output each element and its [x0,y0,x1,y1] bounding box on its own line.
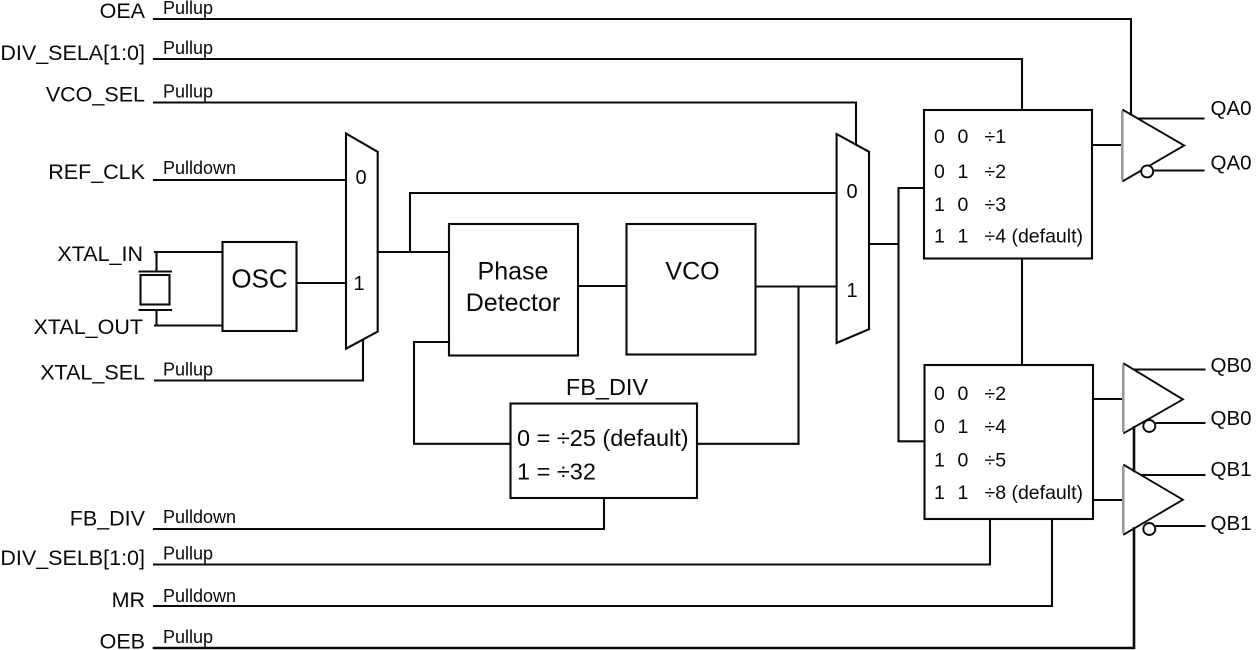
svg-text:Pullup: Pullup [163,82,213,102]
svg-text:1 0: 1 0 [934,450,972,472]
wire MR net [154,519,1052,606]
wire OEB net [154,427,1134,648]
svg-text:MR: MR [112,588,145,612]
svg-text:XTAL_SEL: XTAL_SEL [40,361,145,385]
svg-text:Pullup: Pullup [163,38,213,58]
wire PD to VCO [578,285,627,287]
svg-text:÷5: ÷5 [985,450,1007,472]
svg-text:0 0: 0 0 [934,383,972,405]
wire DIV_SELB net [154,519,990,565]
output buffer QA triangle [1122,110,1184,182]
wire VCO output [756,285,837,287]
svg-text:Pullup: Pullup [163,0,213,18]
svg-text:Pullup: Pullup [163,627,213,647]
wire DIV_SELA net [154,59,1022,110]
output buffer QB1 triangle [1123,465,1183,535]
wire QA0 true output [1138,117,1205,119]
svg-text:Pullup: Pullup [163,544,213,564]
svg-text:VCO_SEL: VCO_SEL [46,83,145,107]
wire XTAL_IN net [155,252,223,271]
svg-text:1 1: 1 1 [934,482,972,504]
wire mux M2 output [869,188,925,441]
inversion bubble QB1 [1143,523,1155,535]
wire QB1 true output [1141,474,1206,476]
svg-text:QA0: QA0 [1211,152,1252,175]
svg-text:1: 1 [846,280,857,302]
svg-text:FB_DIV: FB_DIV [566,374,649,400]
mux M2 [837,134,869,343]
svg-text:÷4 (default): ÷4 (default) [985,226,1084,248]
inversion bubble QB0 [1143,420,1155,432]
svg-text:÷1: ÷1 [985,126,1007,148]
wire REF_CLK net [154,179,346,181]
svg-text:OEB: OEB [100,630,145,650]
svg-text:0 1: 0 1 [934,161,972,183]
wire PLL bypass net [410,193,837,252]
svg-text:0: 0 [846,181,857,203]
divider A box [924,110,1092,259]
svg-text:REF_CLK: REF_CLK [48,160,145,184]
inversion bubble QA [1141,165,1153,177]
svg-text:1 0: 1 0 [934,194,972,216]
feedback divider FB_DIV box [511,404,698,499]
svg-text:QA0: QA0 [1211,97,1252,120]
svg-text:÷2: ÷2 [985,383,1007,405]
svg-text:÷8 (default): ÷8 (default) [985,482,1084,504]
wire mux M1 output [378,251,449,253]
phase detector U2 box [449,224,578,356]
svg-text:QB0: QB0 [1211,354,1252,377]
wire QB0 true output [1134,368,1206,370]
svg-text:Pulldown: Pulldown [163,158,236,178]
svg-text:VCO: VCO [665,258,719,286]
wire FB_DIV input net [154,498,604,529]
svg-text:XTAL_IN: XTAL_IN [57,242,143,266]
svg-text:1 1: 1 1 [934,226,972,248]
wire OEA net [154,19,1131,115]
wire XTAL_SEL net [155,340,363,381]
svg-text:÷2: ÷2 [985,161,1007,183]
svg-text:Phase: Phase [478,258,549,286]
svg-text:Pulldown: Pulldown [163,586,236,606]
mux M1 [346,134,378,349]
svg-text:Pullup: Pullup [163,360,213,380]
svg-text:0 1: 0 1 [934,416,972,438]
svg-text:0: 0 [355,167,366,189]
wire QB1 inverted output [1156,525,1206,527]
svg-text:Pulldown: Pulldown [163,507,236,527]
svg-text:OEA: OEA [100,0,146,23]
svg-text:OSC: OSC [231,264,287,294]
svg-text:Detector: Detector [466,289,560,317]
svg-text:FB_DIV: FB_DIV [70,507,146,531]
svg-text:DIV_SELA[1:0]: DIV_SELA[1:0] [0,41,145,65]
svg-text:XTAL_OUT: XTAL_OUT [33,315,143,339]
svg-text:QB1: QB1 [1211,458,1252,481]
svg-text:÷3: ÷3 [985,194,1007,216]
divider B box [925,365,1094,519]
oscillator U1 OSC box [223,242,297,331]
wire divider A to divider B [1021,259,1023,366]
wire QA0 inverted output [1153,169,1204,171]
wire divider B to buffer QB0 [1093,398,1123,400]
wire OSC output [297,282,347,284]
svg-text:1 = ÷32: 1 = ÷32 [517,459,596,485]
output buffer QB0 triangle [1123,363,1183,433]
svg-text:1: 1 [353,273,364,295]
wire QB0 inverted output [1156,422,1206,424]
svg-text:÷4: ÷4 [985,416,1007,438]
vco U3 box [627,224,756,355]
svg-text:QB0: QB0 [1211,407,1252,430]
svg-text:0 = ÷25 (default): 0 = ÷25 (default) [517,425,689,451]
svg-text:DIV_SELB[1:0]: DIV_SELB[1:0] [0,546,145,570]
svg-text:0 0: 0 0 [934,126,972,148]
crystal X1 [140,272,172,326]
wire divider A to buffer QA [1092,144,1122,146]
svg-text:QB1: QB1 [1211,512,1252,535]
wire divider B to buffer QB1 [1093,499,1123,501]
wire VCO_SEL net [154,103,856,145]
wire XTAL_OUT net [155,324,223,326]
wire feedback to phase detector [414,342,511,444]
wire feedback from VCO [697,287,799,444]
